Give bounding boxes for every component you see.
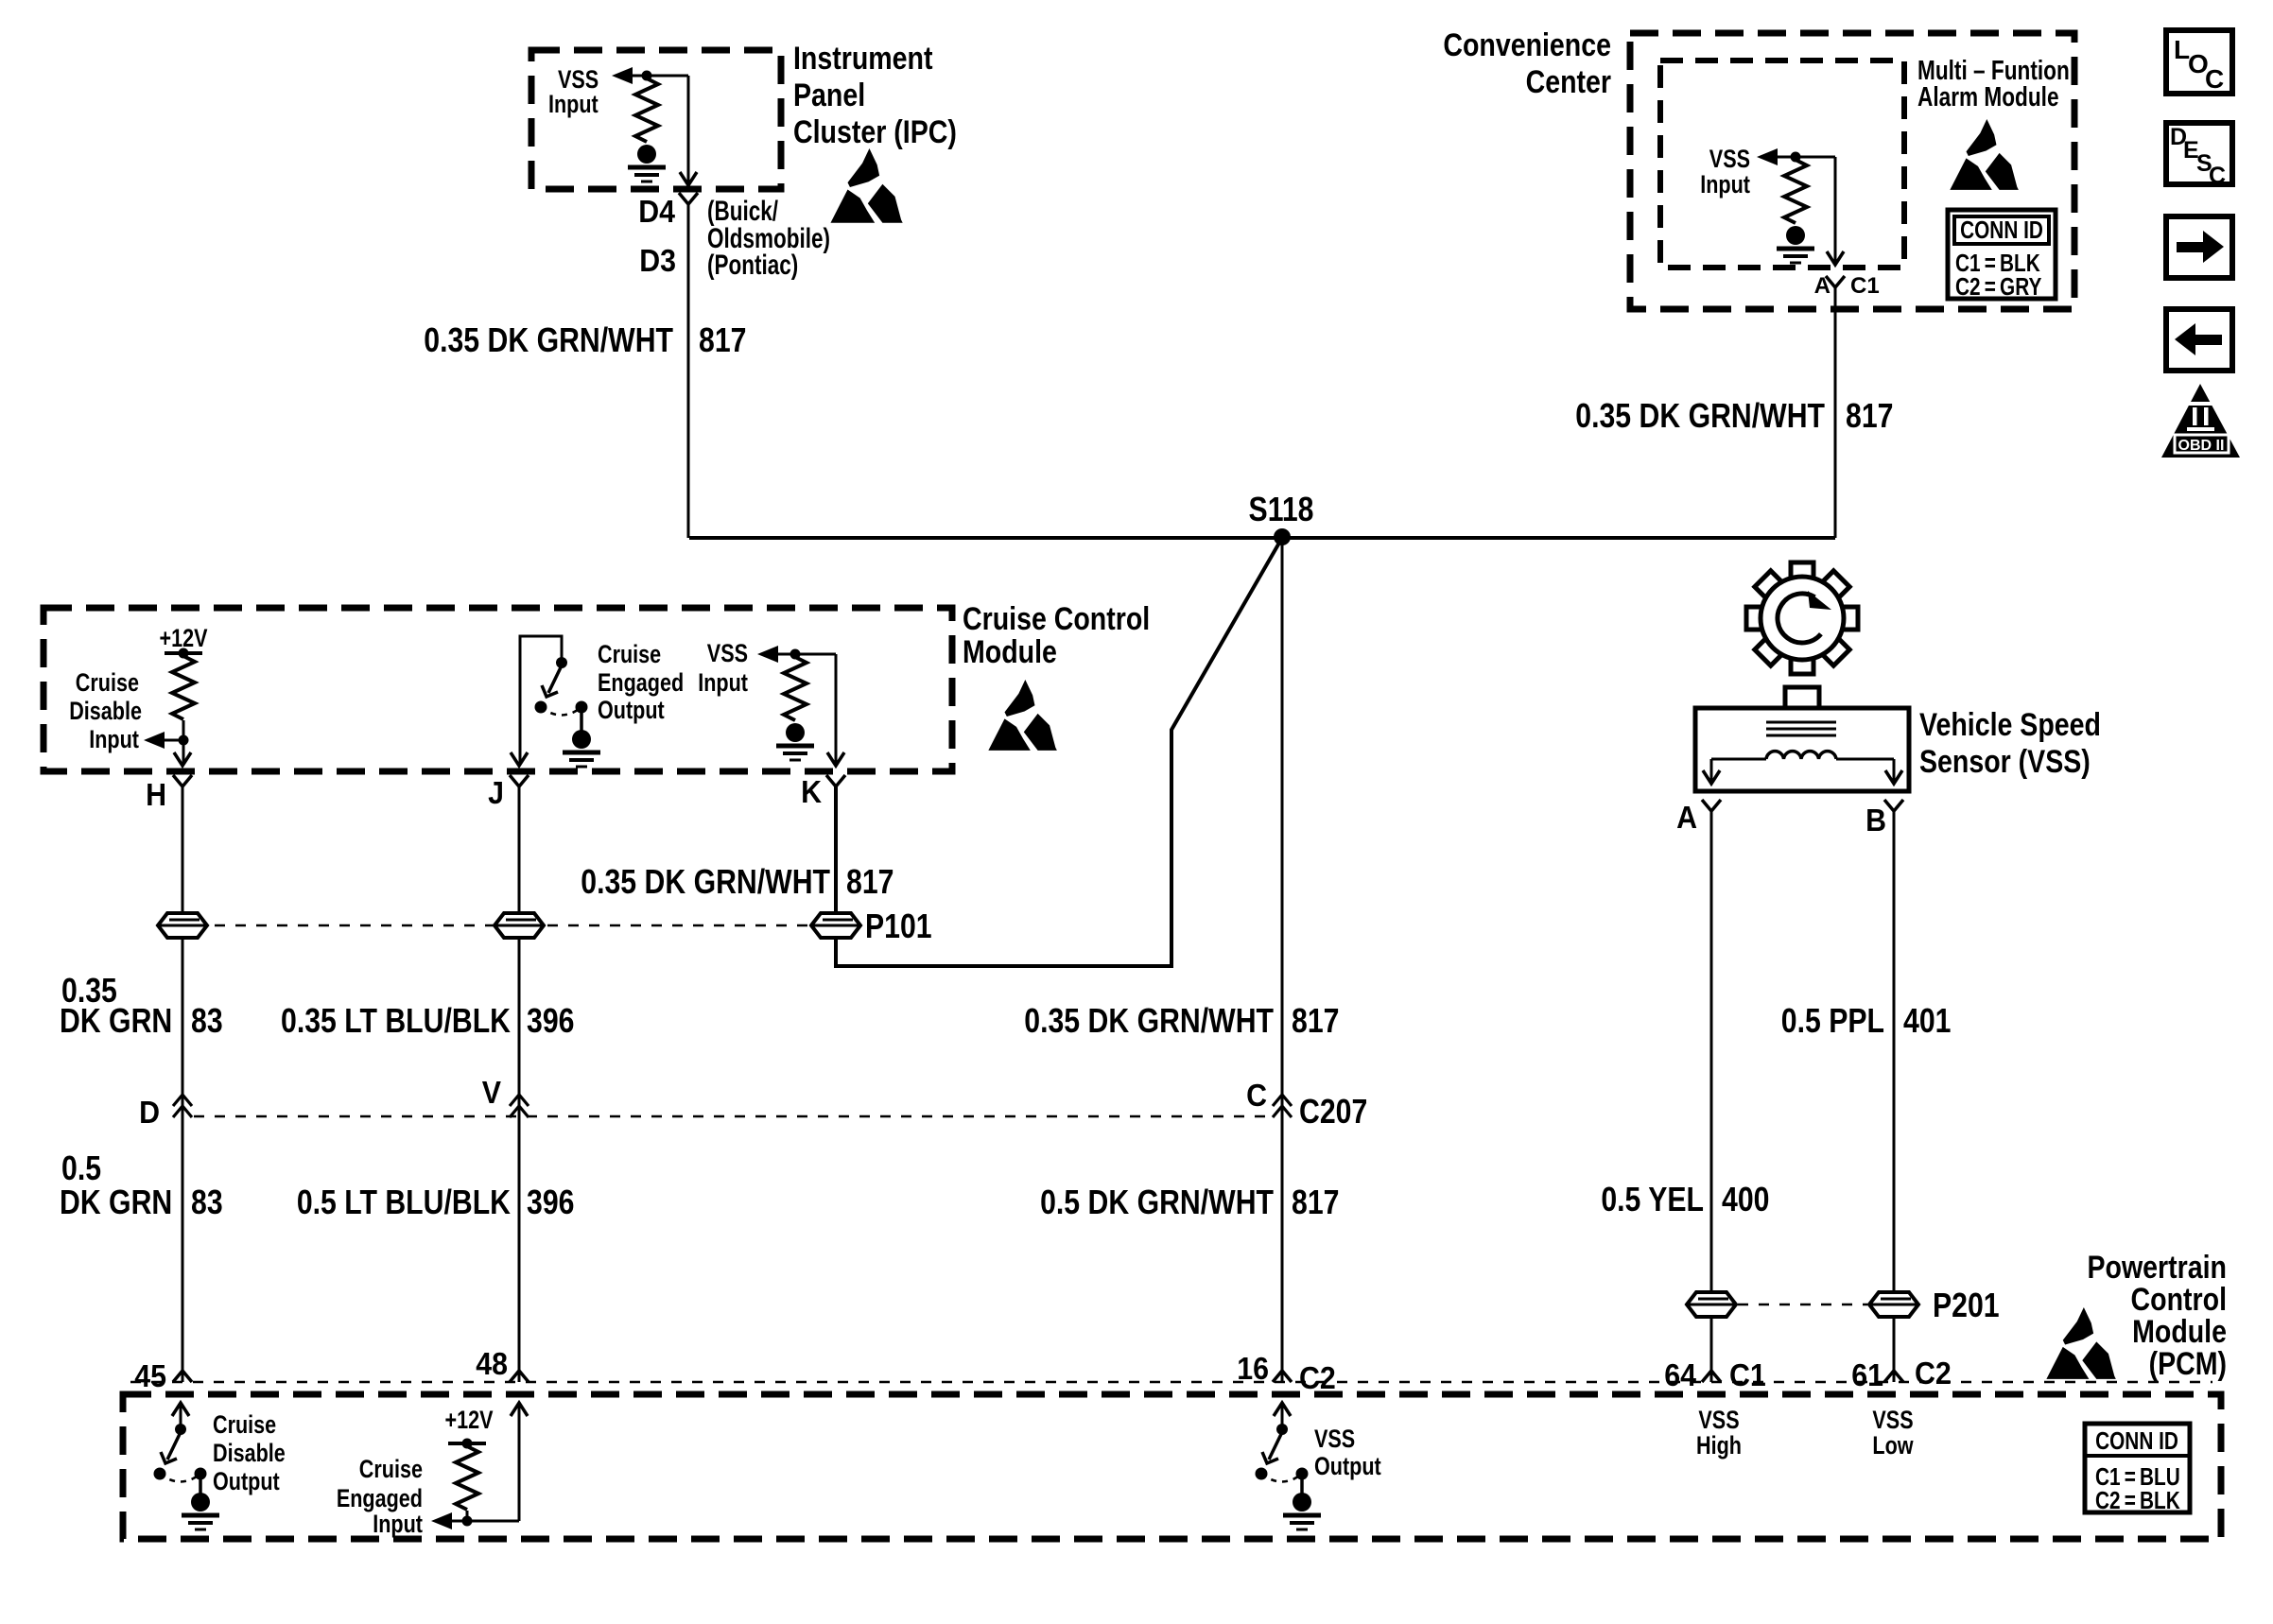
- svg-text:83: 83: [191, 1184, 223, 1222]
- svg-text:Disable: Disable: [213, 1440, 286, 1468]
- svg-text:VSS: VSS: [1698, 1407, 1739, 1435]
- svg-text:61: 61: [1851, 1357, 1883, 1392]
- svg-text:K: K: [801, 774, 822, 809]
- svg-text:Input: Input: [698, 669, 748, 698]
- svg-text:Vehicle Speed: Vehicle Speed: [1919, 707, 2101, 743]
- svg-text:396: 396: [527, 1003, 574, 1041]
- svg-text:A: A: [1676, 800, 1697, 835]
- svg-text:Convenience: Convenience: [1443, 27, 1611, 63]
- svg-text:Input: Input: [1700, 171, 1750, 199]
- svg-text:H: H: [146, 777, 166, 812]
- svg-text:C2: C2: [1915, 1356, 1952, 1391]
- svg-text:0.5 LT BLU/BLK: 0.5 LT BLU/BLK: [297, 1184, 511, 1222]
- svg-text:817: 817: [846, 864, 894, 902]
- svg-text:Powertrain: Powertrain: [2088, 1250, 2227, 1286]
- svg-text:64: 64: [1664, 1357, 1696, 1392]
- svg-text:D4: D4: [638, 194, 675, 229]
- svg-text:Cruise: Cruise: [359, 1456, 423, 1484]
- svg-text:Low: Low: [1872, 1432, 1914, 1460]
- svg-text:DK GRN: DK GRN: [60, 1003, 172, 1041]
- svg-text:C207: C207: [1299, 1094, 1367, 1132]
- svg-text:0.35 DK GRN/WHT: 0.35 DK GRN/WHT: [424, 322, 673, 360]
- svg-text:817: 817: [1292, 1184, 1339, 1222]
- svg-text:OBD II: OBD II: [2178, 438, 2225, 454]
- svg-text:D3: D3: [639, 243, 676, 278]
- svg-text:Output: Output: [213, 1468, 280, 1496]
- svg-text:Output: Output: [598, 697, 665, 725]
- svg-text:C1: C1: [1850, 273, 1880, 299]
- svg-text:0.5 DK GRN/WHT: 0.5 DK GRN/WHT: [1040, 1184, 1274, 1222]
- svg-text:VSS: VSS: [707, 640, 748, 668]
- svg-text:D: D: [139, 1095, 160, 1130]
- svg-text:C: C: [2209, 163, 2226, 189]
- svg-text:817: 817: [699, 322, 746, 360]
- svg-text:Cruise Control: Cruise Control: [963, 601, 1150, 637]
- svg-text:Alarm Module: Alarm Module: [1917, 80, 2059, 112]
- svg-text:VSS: VSS: [1314, 1425, 1355, 1454]
- svg-text:Panel: Panel: [793, 78, 865, 113]
- svg-text:C: C: [2205, 64, 2224, 94]
- svg-text:C1: C1: [1729, 1357, 1766, 1392]
- svg-text:400: 400: [1722, 1182, 1769, 1219]
- svg-text:+12V: +12V: [444, 1407, 494, 1435]
- svg-text:C: C: [1246, 1078, 1267, 1113]
- svg-text:J: J: [488, 775, 504, 810]
- svg-text:401: 401: [1903, 1003, 1951, 1041]
- svg-text:0.35 DK GRN/WHT: 0.35 DK GRN/WHT: [1024, 1003, 1274, 1041]
- svg-text:C2 = GRY: C2 = GRY: [1955, 273, 2042, 301]
- svg-text:0.5 PPL: 0.5 PPL: [1781, 1003, 1884, 1041]
- svg-text:0.35 DK GRN/WHT: 0.35 DK GRN/WHT: [1575, 398, 1825, 436]
- svg-text:Cruise: Cruise: [598, 641, 661, 669]
- svg-text:(Pontiac): (Pontiac): [707, 249, 798, 281]
- svg-text:High: High: [1696, 1432, 1742, 1460]
- svg-text:817: 817: [1846, 398, 1893, 436]
- svg-text:Cruise: Cruise: [76, 669, 139, 698]
- svg-text:0.35 DK GRN/WHT: 0.35 DK GRN/WHT: [581, 864, 830, 902]
- svg-text:45: 45: [134, 1358, 166, 1393]
- svg-text:C2 = BLK: C2 = BLK: [2095, 1487, 2180, 1514]
- svg-text:VSS: VSS: [1872, 1407, 1913, 1435]
- svg-text:Control: Control: [2131, 1282, 2227, 1318]
- svg-text:16: 16: [1237, 1351, 1269, 1386]
- svg-text:V: V: [482, 1075, 501, 1110]
- svg-text:VSS: VSS: [1709, 146, 1750, 174]
- svg-text:P201: P201: [1933, 1287, 2000, 1325]
- svg-text:S118: S118: [1249, 492, 1314, 529]
- svg-text:Sensor (VSS): Sensor (VSS): [1919, 744, 2091, 780]
- svg-text:Cluster (IPC): Cluster (IPC): [793, 114, 957, 150]
- svg-text:CONN ID: CONN ID: [2095, 1427, 2178, 1455]
- svg-text:Output: Output: [1314, 1453, 1381, 1481]
- svg-text:817: 817: [1292, 1003, 1339, 1041]
- svg-text:Input: Input: [373, 1511, 423, 1539]
- svg-text:DK GRN: DK GRN: [60, 1184, 172, 1222]
- svg-text:Instrument: Instrument: [793, 41, 933, 77]
- svg-text:396: 396: [527, 1184, 574, 1222]
- svg-text:0.35 LT BLU/BLK: 0.35 LT BLU/BLK: [281, 1003, 511, 1041]
- svg-text:P101: P101: [865, 908, 932, 946]
- svg-text:Input: Input: [89, 726, 139, 754]
- svg-text:Engaged: Engaged: [598, 669, 684, 698]
- svg-text:83: 83: [191, 1003, 223, 1041]
- svg-text:Module: Module: [963, 634, 1057, 670]
- svg-text:Input: Input: [548, 91, 599, 119]
- svg-text:Engaged: Engaged: [337, 1485, 423, 1513]
- svg-text:0.5 YEL: 0.5 YEL: [1601, 1182, 1704, 1219]
- svg-text:Center: Center: [1526, 64, 1611, 100]
- svg-text:A: A: [1814, 273, 1831, 299]
- svg-text:B: B: [1865, 803, 1886, 838]
- svg-text:Cruise: Cruise: [213, 1411, 276, 1440]
- svg-text:(PCM): (PCM): [2149, 1346, 2227, 1382]
- svg-text:CONN ID: CONN ID: [1960, 216, 2043, 244]
- svg-text:48: 48: [476, 1346, 508, 1381]
- svg-text:0.5: 0.5: [61, 1150, 101, 1188]
- svg-text:Module: Module: [2132, 1314, 2227, 1350]
- svg-text:C2: C2: [1299, 1360, 1336, 1395]
- svg-text:Disable: Disable: [69, 698, 142, 726]
